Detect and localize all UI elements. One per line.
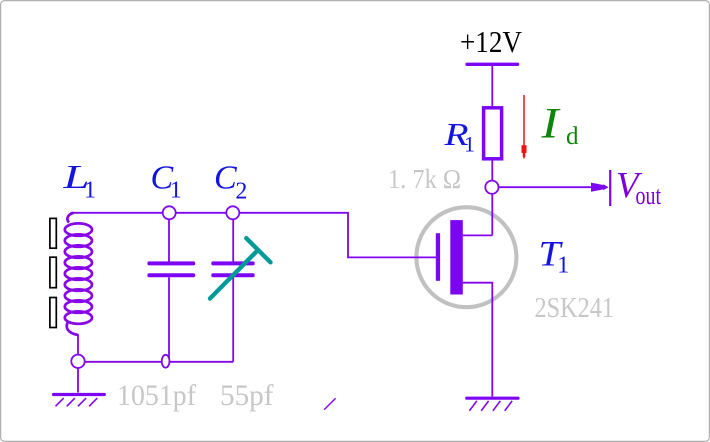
- svg-text:55pf: 55pf: [220, 379, 274, 412]
- svg-text:2: 2: [235, 179, 247, 205]
- svg-text:1. 7k Ω: 1. 7k Ω: [388, 164, 461, 194]
- svg-text:1: 1: [84, 178, 96, 204]
- svg-text:+12V: +12V: [460, 24, 523, 59]
- svg-text:C: C: [214, 160, 237, 197]
- svg-text:out: out: [636, 181, 662, 210]
- svg-text:I: I: [540, 101, 560, 148]
- svg-text:d: d: [566, 123, 579, 150]
- svg-text:1: 1: [557, 253, 569, 279]
- svg-text:1051pf: 1051pf: [117, 379, 196, 412]
- svg-text:2SK241: 2SK241: [535, 292, 615, 324]
- svg-text:1: 1: [170, 178, 182, 204]
- svg-text:1: 1: [464, 132, 475, 157]
